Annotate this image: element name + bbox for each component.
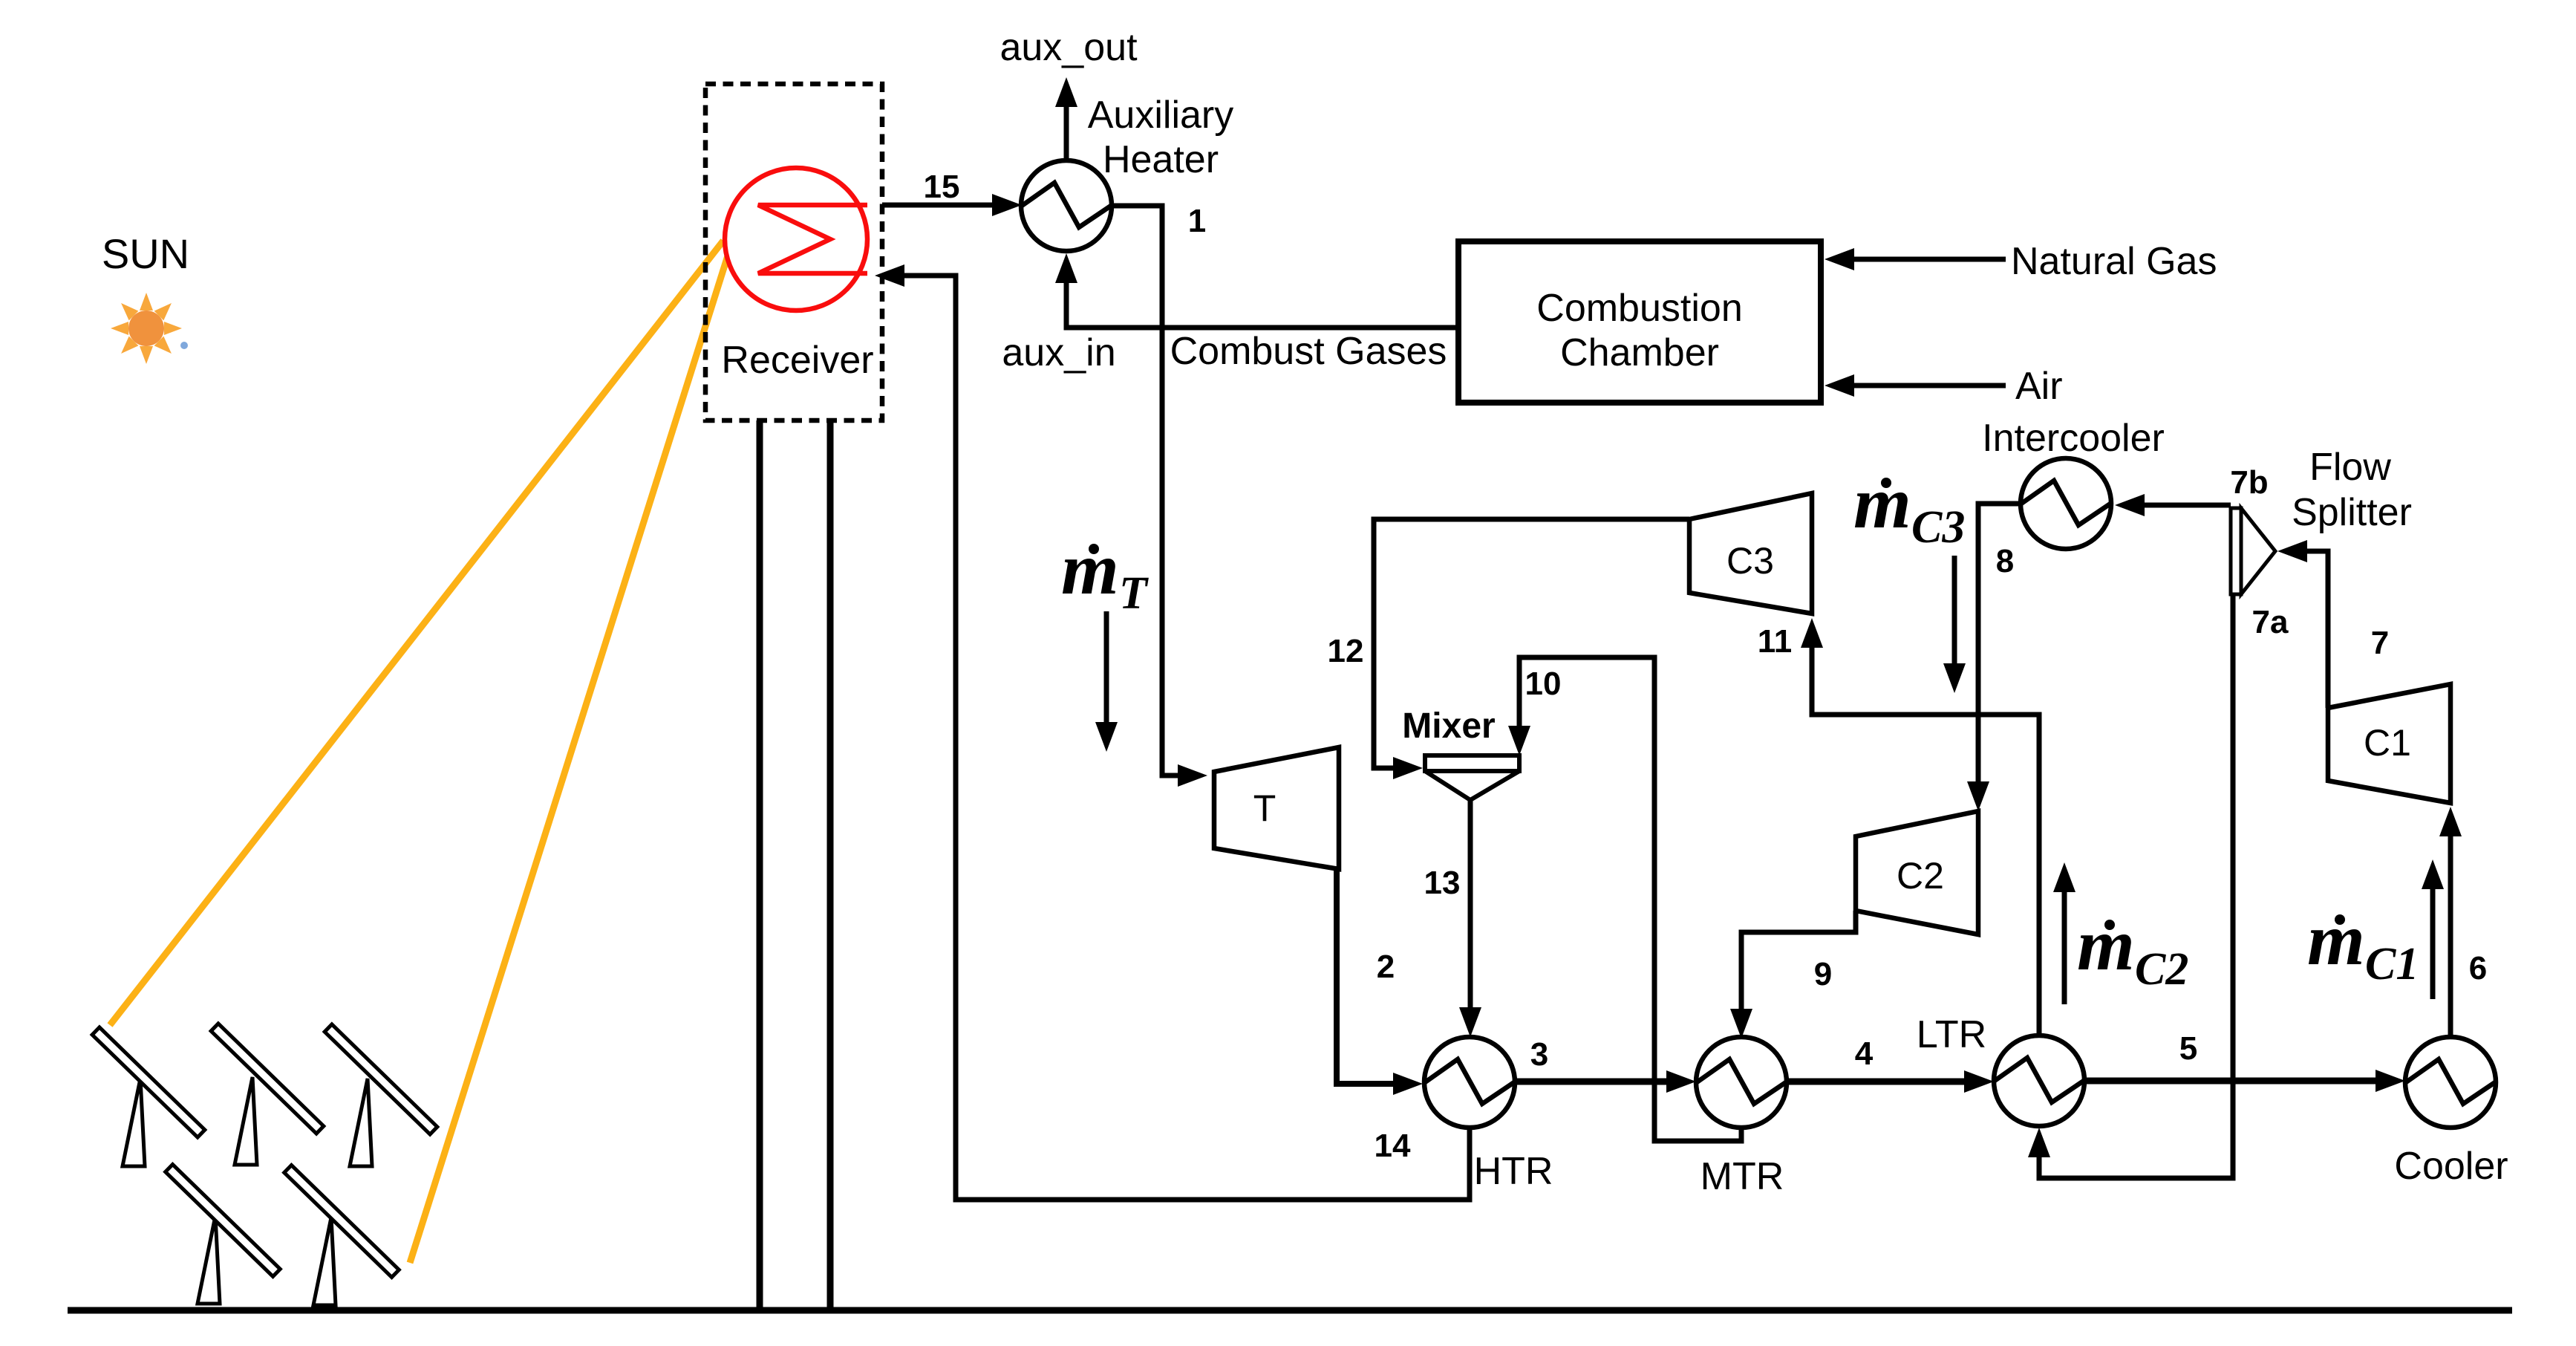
svg-text:10: 10 bbox=[1525, 666, 1562, 702]
ground line bbox=[68, 1307, 2512, 1314]
stream 8 line bbox=[1978, 504, 2021, 784]
stream 7a line to LTR bbox=[2039, 594, 2233, 1178]
svg-text:9: 9 bbox=[1814, 956, 1832, 992]
stream 9 line bbox=[1741, 911, 1856, 1012]
LTR heat exchanger bbox=[1994, 1035, 2084, 1126]
stream 3 line bbox=[1515, 1079, 1669, 1085]
aux_out arrow bbox=[1064, 105, 1069, 161]
svg-text:11: 11 bbox=[1758, 623, 1793, 660]
svg-text:15: 15 bbox=[924, 169, 960, 205]
heliostat mirror 4 bbox=[166, 1165, 281, 1277]
svg-text:Combust Gases: Combust Gases bbox=[1170, 330, 1447, 373]
svg-text:m: m bbox=[2077, 903, 2135, 986]
heliostat stand 2 bbox=[235, 1077, 257, 1165]
svg-text:Natural Gas: Natural Gas bbox=[2011, 240, 2217, 283]
svg-text:C2: C2 bbox=[1897, 855, 1944, 897]
svg-text:14: 14 bbox=[1375, 1128, 1411, 1164]
svg-text:7: 7 bbox=[2371, 625, 2389, 661]
combustion chamber box bbox=[1458, 241, 1821, 403]
svg-text:1: 1 bbox=[1188, 203, 1206, 239]
receiver dashed enclosure bbox=[705, 84, 882, 420]
m_dot_C3 arrow bbox=[1952, 556, 1957, 666]
svg-text:2: 2 bbox=[1377, 949, 1395, 985]
svg-text:Air: Air bbox=[2015, 365, 2063, 408]
stream 7 line bbox=[2304, 551, 2328, 708]
svg-text:m: m bbox=[1061, 527, 1119, 610]
svg-text:C2: C2 bbox=[2135, 944, 2188, 995]
svg-text:Intercooler: Intercooler bbox=[1982, 417, 2165, 460]
m_dot_C2 arrow bbox=[2062, 889, 2067, 1004]
svg-text:HTR: HTR bbox=[1474, 1150, 1553, 1193]
stream 7b line to intercooler bbox=[2142, 503, 2231, 508]
sun icon bbox=[111, 293, 182, 364]
svg-text:m: m bbox=[1853, 461, 1911, 544]
heliostat stand 4 bbox=[198, 1216, 220, 1304]
svg-text:C3: C3 bbox=[1726, 540, 1774, 582]
blue speck artifact bbox=[180, 342, 188, 349]
stream 14 line back to receiver bbox=[903, 276, 1470, 1200]
heliostat stand 3 bbox=[350, 1079, 372, 1166]
svg-text:MTR: MTR bbox=[1701, 1155, 1784, 1198]
svg-text:Mixer: Mixer bbox=[1402, 706, 1495, 746]
solar ray 1 (heliostat 1 to receiver) bbox=[110, 241, 723, 1025]
stream 10 line bbox=[1519, 657, 1741, 1141]
svg-text:Combustion: Combustion bbox=[1536, 287, 1742, 330]
compressor C1 bbox=[2328, 684, 2451, 803]
m_dot_C1 arrow bbox=[2430, 886, 2436, 999]
svg-text:5: 5 bbox=[2179, 1030, 2197, 1067]
svg-text:7a: 7a bbox=[2252, 604, 2289, 640]
svg-text:T: T bbox=[1119, 568, 1149, 619]
svg-text:13: 13 bbox=[1424, 865, 1461, 901]
heliostat stand 5 bbox=[313, 1217, 336, 1305]
auxiliary heater HX bbox=[1021, 160, 1112, 251]
svg-text:Chamber: Chamber bbox=[1560, 331, 1719, 374]
svg-text:aux_in: aux_in bbox=[1002, 331, 1115, 374]
heliostat mirror 2 bbox=[211, 1024, 324, 1134]
aux_in line from combustion chamber bbox=[1066, 282, 1458, 328]
m_dot_T annotation bbox=[1061, 527, 1149, 619]
stream 12 line bbox=[1374, 519, 1689, 768]
compressor C2 bbox=[1856, 811, 1978, 934]
receiver red coil bbox=[758, 205, 867, 273]
receiver red circle bbox=[725, 168, 867, 311]
svg-text:T: T bbox=[1253, 787, 1276, 829]
heliostat mirror 3 bbox=[325, 1024, 437, 1134]
stream 2 line bbox=[1337, 869, 1368, 1084]
stream 13 line bbox=[1468, 800, 1473, 1010]
m_dot_C3 annotation bbox=[1853, 461, 1965, 553]
svg-text:4: 4 bbox=[1855, 1035, 1874, 1072]
stream 1 line bbox=[1111, 206, 1179, 776]
svg-text:Splitter: Splitter bbox=[2292, 491, 2412, 534]
natural gas feed line bbox=[1853, 257, 2006, 262]
svg-text:SUN: SUN bbox=[102, 230, 189, 277]
stream 5 line bbox=[2084, 1078, 2378, 1085]
heliostat mirror 5 bbox=[284, 1165, 400, 1278]
solar ray 2 (heliostat 5 to receiver) bbox=[410, 251, 729, 1263]
flow splitter body bbox=[2231, 508, 2241, 594]
svg-text:8: 8 bbox=[1996, 543, 2014, 579]
svg-text:C1: C1 bbox=[2365, 939, 2419, 989]
svg-text:3: 3 bbox=[1530, 1036, 1548, 1073]
air feed line bbox=[1853, 383, 2006, 388]
cooler heat exchanger bbox=[2405, 1037, 2496, 1128]
svg-text:Heater: Heater bbox=[1103, 138, 1219, 181]
receiver tower leg 1 bbox=[757, 420, 763, 1310]
m_dot_C2 annotation bbox=[2077, 903, 2188, 995]
intercooler heat exchanger bbox=[2021, 458, 2111, 549]
HTR heat exchanger bbox=[1424, 1037, 1515, 1128]
receiver tower leg 2 bbox=[827, 420, 834, 1310]
heliostat stand 1 bbox=[123, 1079, 145, 1166]
stream 11 line bbox=[1812, 646, 2039, 1035]
svg-text:C1: C1 bbox=[2364, 722, 2411, 764]
mixer bar bbox=[1425, 755, 1519, 771]
stream 6 line bbox=[2448, 833, 2453, 1037]
mixer funnel bbox=[1425, 771, 1519, 800]
svg-text:LTR: LTR bbox=[1917, 1013, 1986, 1056]
MTR heat exchanger bbox=[1696, 1037, 1787, 1128]
compressor C3 bbox=[1689, 493, 1812, 614]
svg-text:6: 6 bbox=[2469, 950, 2487, 986]
svg-text:12: 12 bbox=[1328, 633, 1364, 669]
heliostat mirror 1 bbox=[92, 1027, 205, 1137]
turbine T bbox=[1214, 747, 1339, 869]
svg-text:aux_out: aux_out bbox=[1000, 26, 1138, 69]
svg-text:Auxiliary: Auxiliary bbox=[1088, 94, 1234, 137]
svg-text:7b: 7b bbox=[2230, 464, 2268, 501]
svg-text:Flow: Flow bbox=[2309, 446, 2391, 489]
svg-text:m: m bbox=[2307, 898, 2365, 981]
m_dot_T arrow bbox=[1104, 611, 1109, 724]
svg-text:Cooler: Cooler bbox=[2394, 1145, 2508, 1188]
svg-text:C3: C3 bbox=[1911, 502, 1965, 553]
stream 15 line bbox=[882, 203, 995, 208]
svg-text:Receiver: Receiver bbox=[721, 339, 873, 382]
m_dot_C1 annotation bbox=[2307, 898, 2419, 989]
stream 4 line bbox=[1787, 1079, 1967, 1085]
